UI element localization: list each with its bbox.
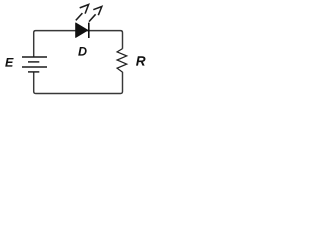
LED light arrow 1 — [76, 5, 89, 21]
battery E plates — [22, 57, 47, 72]
LED D cathode bar — [88, 23, 90, 38]
wire bottom loop from battery minus to resistor bottom — [34, 72, 123, 94]
label R — [136, 56, 145, 65]
wire top and left upper segment — [34, 31, 123, 57]
LED D triangle — [76, 23, 88, 38]
label D — [78, 47, 86, 56]
LED light arrow 2 — [89, 7, 102, 22]
label E — [5, 58, 13, 67]
resistor R zigzag — [117, 49, 127, 73]
